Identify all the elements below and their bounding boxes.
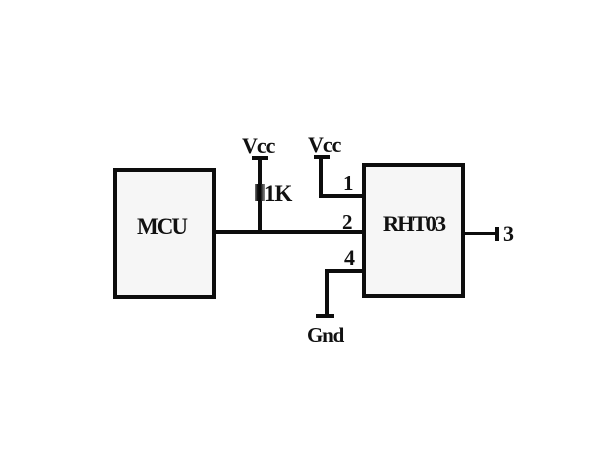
wire: pin 4 down to ground bbox=[325, 269, 329, 317]
ground terminal bar bbox=[316, 314, 334, 318]
wire: pin 3 out of RHT03 bbox=[463, 232, 496, 236]
wire: Vcc bar down to pin 1 level bbox=[319, 157, 323, 198]
Gnd label bbox=[307, 325, 343, 346]
pin number 4 bbox=[344, 247, 355, 269]
Vcc terminal bar (RHT03 pin 1 branch) bbox=[314, 155, 330, 159]
RHT03 block U2 bbox=[362, 163, 465, 298]
wire: Vcc bar down to resistor and data line bbox=[258, 158, 262, 232]
pin number 2 bbox=[342, 212, 353, 233]
pin number 3 bbox=[503, 223, 514, 245]
Vcc label (pull-up branch) bbox=[242, 135, 274, 157]
wire: pin 1 horizontal into RHT03 bbox=[319, 194, 362, 198]
resistor R1 (1K pull-up) body bbox=[255, 184, 265, 201]
Vcc label (RHT03 pin 1 branch) bbox=[308, 134, 340, 156]
wire: data line MCU pin to RHT03 pin 2 bbox=[214, 230, 364, 234]
resistor value label 1K bbox=[264, 182, 291, 205]
wire: pin 4 horizontal out of RHT03 bbox=[325, 269, 362, 273]
pin 3 end terminal bar bbox=[495, 227, 499, 241]
pin number 1 bbox=[343, 173, 354, 194]
Vcc terminal bar (pull-up branch) bbox=[252, 156, 268, 160]
MCU block U1 bbox=[113, 168, 216, 299]
